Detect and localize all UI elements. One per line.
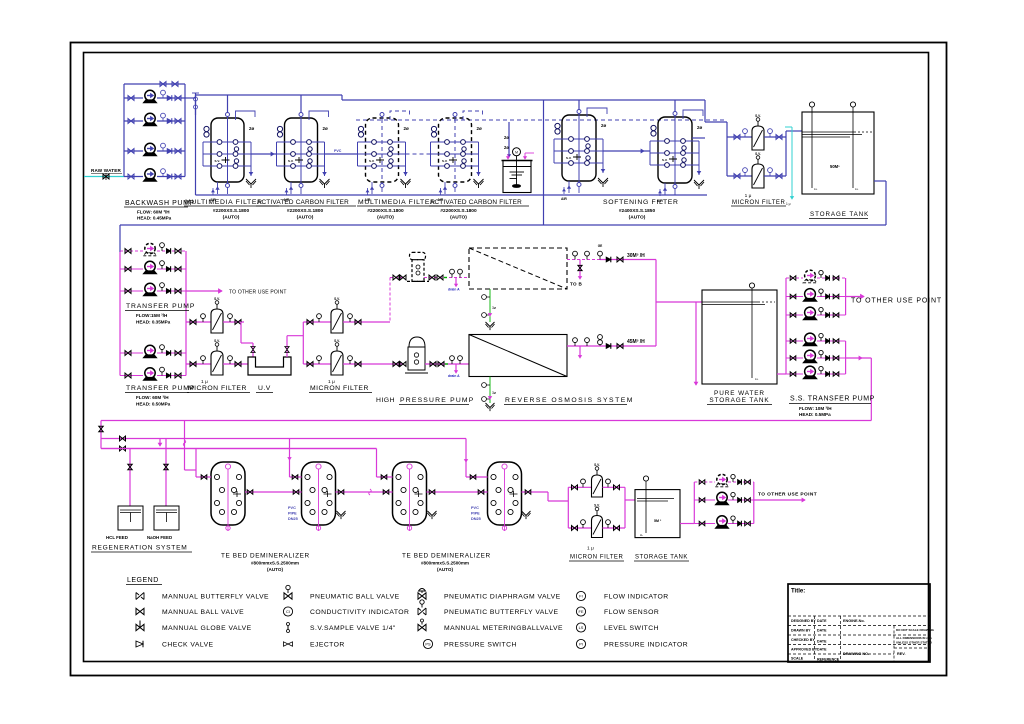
vessel vent line <box>683 110 703 119</box>
vessel vent line <box>309 111 329 120</box>
bottom micron feed riser <box>567 487 569 528</box>
demineralizer top nozzle <box>502 464 507 469</box>
vessel left riser <box>276 142 278 166</box>
ss transfer pump SP5 <box>803 350 817 363</box>
backwash pump P2 suction valve <box>128 119 134 124</box>
micron filter feed riser <box>726 122 728 176</box>
bottom micron filter M6 <box>592 516 603 538</box>
vessel left riser <box>649 141 651 165</box>
micron filter F6 <box>752 164 764 188</box>
vessel center pipe <box>674 111 676 189</box>
bottom micron M5 feed <box>568 486 591 488</box>
softening outlet pipe <box>692 137 705 139</box>
svg-text:(AUTO): (AUTO) <box>437 567 453 572</box>
micron filter M4 outlet <box>343 363 404 365</box>
transfer pump TP1 discharge <box>157 250 186 252</box>
vessel internal header 2 <box>431 153 479 155</box>
TE bed demineralizer D4 <box>488 462 522 531</box>
bottom pump BP2 suction <box>694 499 715 501</box>
svg-text:DN25: DN25 <box>471 517 481 521</box>
svg-text:CHECKED BY: CHECKED BY <box>791 638 815 642</box>
ss transfer pump SP2 suction <box>786 296 803 298</box>
RO1 reject line <box>489 289 491 322</box>
inner border frame <box>84 53 929 662</box>
bottom header H1 <box>101 420 871 422</box>
svg-text:S.V.: S.V. <box>214 339 220 343</box>
backwash pump P3 suction valve <box>128 149 134 154</box>
brine tank level line <box>503 166 531 168</box>
svg-text:drain A: drain A <box>448 288 460 292</box>
vessel vent line <box>236 111 256 120</box>
vessel internal header 3 <box>277 165 325 167</box>
vessel inlet gauges <box>204 126 209 131</box>
vessel internal header 1 <box>554 138 603 140</box>
vessel drain <box>371 182 373 194</box>
brine tank agitator motor <box>513 148 521 156</box>
demineralizer center pipe <box>504 469 506 525</box>
transfer pump suction manifold <box>119 252 121 376</box>
backwash pump P3 suction line <box>124 150 143 152</box>
demineralizer shell <box>211 462 245 525</box>
svg-text:S.V.: S.V. <box>594 463 600 467</box>
bottom pump BP3 suction <box>694 523 715 525</box>
vessel drain funnel <box>401 179 411 188</box>
svg-text:FLOW SENSOR: FLOW SENSOR <box>604 609 659 616</box>
vessel vent line <box>587 108 607 117</box>
naoh feed drop <box>165 439 167 507</box>
demin D2 feed drop <box>289 439 291 478</box>
vessel bottom nozzle <box>673 185 677 189</box>
filter vessel V2 <box>277 111 330 202</box>
brine tank agitator shaft <box>516 156 518 186</box>
ss pumps group1 discharge header <box>845 278 847 315</box>
bypass valve <box>160 82 166 87</box>
svg-text:#2200XS.S.1800: #2200XS.S.1800 <box>367 208 404 214</box>
vessel bottom pipe <box>381 188 383 194</box>
vessel sv mark <box>573 154 581 160</box>
bottom tank feed <box>625 499 635 501</box>
vessel internal header 3 <box>203 165 251 167</box>
svg-text:PIPE: PIPE <box>288 512 297 516</box>
bottom header H2 <box>101 438 466 440</box>
micron filter M1 <box>211 309 223 333</box>
bottom left down leg <box>100 421 102 449</box>
bottom tank level lines <box>637 498 674 500</box>
vessel right riser <box>405 142 407 176</box>
svg-text:HIGH: HIGH <box>376 397 395 404</box>
raw water inlet line <box>84 176 124 178</box>
demineralizer internals <box>396 474 401 479</box>
svg-text:(AUTO): (AUTO) <box>450 215 467 221</box>
vessel drain <box>217 182 219 194</box>
vessel V1 feed drop <box>227 95 229 112</box>
svg-text:ACTIVATED CARBON FILTER: ACTIVATED CARBON FILTER <box>430 199 522 206</box>
demineralizer top nozzle <box>225 464 230 469</box>
svg-text:NaOH FEED: NaOH FEED <box>147 535 172 540</box>
micron filter M2 feed <box>186 363 211 365</box>
svg-text:#800mmxS.S.2500mm: #800mmxS.S.2500mm <box>421 561 469 566</box>
ss pump suction from tank <box>777 373 786 375</box>
demineralizer center pipe <box>227 469 229 525</box>
bottom micron filter M5 <box>592 475 603 497</box>
backwash pump P4 suction line <box>124 176 143 178</box>
backwash pump P1 discharge gauge <box>162 95 164 98</box>
vessel sv mark <box>295 157 303 163</box>
svg-text:LEVEL SWITCH: LEVEL SWITCH <box>604 625 659 632</box>
svg-text:30M³ /H: 30M³ /H <box>627 253 645 259</box>
vessel inlet gauges <box>555 123 560 128</box>
title block frame <box>788 584 930 662</box>
svg-text:2ø: 2ø <box>477 126 483 131</box>
ss transfer pump SP4 discharge <box>817 340 846 342</box>
pure water tank level lines <box>702 301 760 303</box>
hp1 discharge dashed <box>424 277 469 279</box>
svg-text:DRAWING NO.: DRAWING NO. <box>843 652 869 656</box>
RO module future (dashed) <box>469 248 567 289</box>
vessel sv mark <box>669 156 677 162</box>
bottom micron M6 feed <box>568 527 591 529</box>
svg-text:MULTIMEDIA FILTER: MULTIMEDIA FILTER <box>358 199 436 206</box>
svg-text:5M ³: 5M ³ <box>654 519 662 523</box>
svg-text:MANNUAL GLOBE VALVE: MANNUAL GLOBE VALVE <box>162 625 252 632</box>
demineralizer top nozzle <box>407 464 412 469</box>
legend conductivity indicator <box>283 607 292 616</box>
vessel inlet gauges <box>651 125 656 130</box>
vessel center pipe <box>381 112 383 188</box>
outer border frame <box>71 43 947 676</box>
micron filter F6 feed stub <box>727 175 752 177</box>
demineralizer bottom nozzle <box>502 526 506 530</box>
hp pump dashed riser <box>389 278 391 323</box>
svg-text:1 μ: 1 μ <box>328 379 335 385</box>
svg-text:2ø: 2ø <box>504 145 509 150</box>
legend sv sample valve <box>287 623 289 633</box>
vessel shell <box>211 118 244 182</box>
backwash pump P4 suction valve <box>128 174 134 179</box>
RO module <box>469 335 567 377</box>
legend flow sensor <box>576 607 585 616</box>
svg-text:(AUTO): (AUTO) <box>377 215 394 221</box>
bottom pump BP3 discharge <box>728 523 754 525</box>
vessel bottom nozzle <box>380 184 384 188</box>
micron filter M2 <box>211 351 223 375</box>
svg-text:DATE: DATE <box>817 619 827 623</box>
svg-text:TO B: TO B <box>570 282 582 287</box>
title block dashed grid <box>788 615 930 617</box>
interconnecting pipe V1-V2 <box>251 153 277 155</box>
bottom pump BP1 <box>715 474 728 487</box>
uv unit <box>248 357 291 375</box>
transfer pump discharge header <box>185 251 187 376</box>
backwash pump P1 suction line <box>124 97 143 99</box>
vessel internal header 1 <box>358 141 406 143</box>
backwash pump P2 discharge gauge <box>162 118 164 121</box>
backwash pump P1 discharge valve <box>175 96 181 101</box>
vessel bottom pipe <box>674 189 676 195</box>
svg-text:MICRON FILTER: MICRON FILTER <box>188 385 247 392</box>
demin D4 outlet <box>522 491 549 493</box>
vessel left riser <box>430 142 432 166</box>
ss transfer pump SP3 <box>803 307 817 320</box>
naoh feed tank <box>154 506 179 530</box>
ss transfer pump SP2 discharge <box>817 296 846 298</box>
backwash pump P2 suction line <box>124 120 143 122</box>
ss transfer pump SP4 suction <box>786 340 803 342</box>
brine tank feed drop <box>508 122 510 157</box>
svg-text:TE BED DEMINERALIZER: TE BED DEMINERALIZER <box>402 553 491 560</box>
uv outlet stub <box>286 336 288 357</box>
svg-text:PVC: PVC <box>471 506 479 510</box>
bottom storage tank shell <box>635 490 680 538</box>
bottom micron M6 outlet <box>603 527 626 529</box>
storage tank level lines <box>802 131 856 133</box>
svg-text:2ø: 2ø <box>323 126 329 131</box>
vessel internal header 2 <box>650 152 699 154</box>
vessel bottom nozzle <box>577 183 581 187</box>
micron F5 feed valve <box>734 135 740 140</box>
storage tank level standpipe 1 <box>811 107 813 188</box>
svg-text:MULTIMEDIA FILTER: MULTIMEDIA FILTER <box>185 199 263 206</box>
backwash pump suction manifold <box>123 84 125 177</box>
legend pneumatic ball valve <box>284 593 292 599</box>
softening vessel S2 feed drop <box>674 100 676 111</box>
demineralizer internals <box>305 474 310 479</box>
uv feed drop <box>240 322 242 343</box>
vessel bottom nozzle <box>453 184 457 188</box>
transfer pump TP1 suction <box>120 250 143 252</box>
vessel drain <box>568 181 570 193</box>
brine tank shell <box>503 161 531 193</box>
svg-text:S.V.: S.V. <box>288 159 294 163</box>
air scour arrows <box>440 188 442 195</box>
bottom pumps discharge header <box>753 482 755 524</box>
svg-text:(AUTO): (AUTO) <box>267 567 283 572</box>
svg-text:TO OTHER USE POINT: TO OTHER USE POINT <box>229 290 287 296</box>
svg-text:3ø: 3ø <box>492 391 496 395</box>
ss transfer pump SP1 <box>803 270 817 283</box>
svg-text:ACTIVATED CARBON FILTER: ACTIVATED CARBON FILTER <box>257 199 349 206</box>
svg-text:LL: LL <box>814 187 818 191</box>
high pressure pump HP2 <box>405 337 428 373</box>
TO B branch <box>579 260 581 277</box>
demineralizer feed down leg <box>870 358 872 421</box>
vessel center pipe <box>454 112 456 188</box>
svg-text:PVC: PVC <box>288 506 296 510</box>
to other use point line right <box>846 296 864 298</box>
air scour arrows <box>212 188 214 195</box>
backwash pump P2 discharge valve <box>175 119 181 124</box>
transfer pump TP4 <box>143 345 156 358</box>
backwash bypass line <box>124 83 185 85</box>
demin D4 feed leg <box>465 439 467 478</box>
svg-text:PRESSURE SWITCH: PRESSURE SWITCH <box>444 642 517 649</box>
top header step <box>341 95 343 100</box>
top header right run <box>342 99 705 101</box>
raw water butterfly valve <box>103 174 109 179</box>
vessel right riser <box>324 142 326 176</box>
backwash pump P1 suction valve <box>128 96 134 101</box>
svg-text:HEAD: 0.45MPa: HEAD: 0.45MPa <box>137 216 172 221</box>
micron filter M1 outlet <box>223 321 244 323</box>
backwash pump P3 check valve <box>167 149 172 154</box>
svg-text:PI: PI <box>579 641 583 646</box>
vessel bottom pipe <box>578 187 580 193</box>
vessel drain funnel <box>598 178 608 187</box>
transfer pump TP3 suction <box>120 290 143 292</box>
vessel left riser <box>357 142 359 166</box>
backwash pump P3 <box>143 143 156 156</box>
svg-text:1 μ: 1 μ <box>786 202 791 206</box>
interconnecting pipe S1-S2 <box>603 150 650 152</box>
legend level switch <box>576 623 585 632</box>
svg-text:ALL DIMENSIONS IN mm: ALL DIMENSIONS IN mm <box>896 636 932 640</box>
micron filter M3 outlet <box>343 321 390 323</box>
vessel internal header 1 <box>203 141 251 143</box>
svg-text:2ø: 2ø <box>249 126 255 131</box>
backwash pump P3 discharge gauge <box>162 148 164 151</box>
svg-text:SOFTENING FILTER: SOFTENING FILTER <box>603 199 679 206</box>
svg-text:CI: CI <box>286 609 290 614</box>
svg-text:LS: LS <box>579 625 584 630</box>
backwash pump P4 discharge valve <box>175 174 181 179</box>
vessel bottom pipe <box>454 188 456 194</box>
uv outlet ejector <box>285 347 289 353</box>
header drop to micron filters <box>704 100 706 122</box>
demin drain funnels <box>337 511 346 519</box>
vessel top nozzle <box>673 112 677 116</box>
svg-text:DN25: DN25 <box>288 517 298 521</box>
demin D2-D3 link <box>336 491 393 493</box>
svg-text:MANNUAL BALL VALVE: MANNUAL BALL VALVE <box>162 609 244 616</box>
air scour arrows <box>659 189 661 196</box>
svg-text:LEGEND: LEGEND <box>127 577 159 584</box>
vessel vent line <box>390 111 410 120</box>
bottom micron outlet riser <box>624 487 626 528</box>
header down leg at softening <box>543 100 545 225</box>
transfer suction long header <box>120 224 886 226</box>
vessel shell <box>366 118 399 182</box>
svg-text:PVC: PVC <box>334 149 342 153</box>
demin D1-D2 link <box>245 491 302 493</box>
legend manual ball valve <box>136 608 144 614</box>
svg-text:HCL FEED: HCL FEED <box>106 535 128 540</box>
svg-text:TRANSFER PUMP: TRANSFER PUMP <box>126 385 195 392</box>
legend flow indicator <box>576 591 585 600</box>
RO1 permeate line (dashed) <box>567 259 600 261</box>
svg-text:#2400XS.S.1850: #2400XS.S.1850 <box>619 208 656 214</box>
svg-text:50M³: 50M³ <box>830 164 840 169</box>
svg-text:PNEUMATIC DIAPHRAGM VALVE: PNEUMATIC DIAPHRAGM VALVE <box>444 594 561 601</box>
bottom pump BP1 suction <box>694 481 715 483</box>
svg-text:AIR: AIR <box>561 197 567 201</box>
legend pneumatic butterfly valve <box>417 608 419 615</box>
TE bed demineralizer D3 <box>393 462 427 531</box>
bottom pump BP1 discharge <box>728 481 754 483</box>
svg-text:drain A: drain A <box>448 374 460 378</box>
ss transfer pump SP1 suction <box>786 277 803 279</box>
vessel drain <box>290 182 292 194</box>
svg-text:S.V.: S.V. <box>334 339 340 343</box>
backwash pump P2 <box>143 113 156 126</box>
demineralizer top nozzle <box>316 464 321 469</box>
micron col2 riser <box>302 322 304 364</box>
vessel left riser <box>553 139 555 163</box>
vessel top nozzle <box>453 113 457 117</box>
svg-text:45M³ /H: 45M³ /H <box>627 339 645 345</box>
micron F6 outlet <box>764 175 786 177</box>
svg-text:(AUTO): (AUTO) <box>297 215 314 221</box>
micron F5 feed gauge <box>744 134 746 138</box>
svg-text:STORAGE TANK: STORAGE TANK <box>709 397 769 404</box>
svg-text:PS: PS <box>425 641 431 646</box>
filter vessel V4 <box>431 111 484 202</box>
vessel internal header 2 <box>358 153 406 155</box>
vessel right riser <box>698 141 700 175</box>
svg-text:LL: LL <box>640 533 644 537</box>
ss transfer pump SP1 discharge <box>817 277 846 279</box>
legend check valve <box>136 641 143 647</box>
vessel drain funnel <box>246 179 256 188</box>
vessel drain <box>444 182 446 194</box>
svg-text:(AUTO): (AUTO) <box>629 215 646 221</box>
bottom pump BP3 <box>715 516 728 529</box>
svg-text:CHECK VALVE: CHECK VALVE <box>162 642 214 649</box>
bottom pump BP2 discharge <box>728 499 754 501</box>
svg-text:PNEUMATIC BUTTERFLY VALVE: PNEUMATIC BUTTERFLY VALVE <box>444 609 558 616</box>
svg-text:TE BED DEMINERALIZER: TE BED DEMINERALIZER <box>221 553 310 560</box>
vessel top nozzle <box>577 110 581 114</box>
transfer pump TP5 <box>143 368 156 381</box>
to other use point branch <box>186 290 222 292</box>
vessel internal header 3 <box>554 162 603 164</box>
demineralizer bottom nozzle <box>407 526 411 530</box>
vessel left riser <box>202 142 204 166</box>
RO2 permeate line <box>567 345 656 347</box>
svg-text:STORAGE TANK: STORAGE TANK <box>635 555 688 561</box>
sample branch bottom <box>579 346 581 356</box>
vessel internal header 3 <box>431 165 479 167</box>
svg-text:#2200XS.S.1800: #2200XS.S.1800 <box>440 208 477 214</box>
legend ejector <box>284 642 293 646</box>
legend pressure switch <box>423 639 432 648</box>
vessel V4 feed drop <box>454 112 456 120</box>
bypass valve 2 <box>172 82 178 87</box>
vessel inlet gauges <box>358 126 363 131</box>
vessel shell <box>562 115 596 181</box>
tank feed run <box>656 301 702 303</box>
bottom to other use point <box>754 499 805 501</box>
svg-text:(AUTO): (AUTO) <box>223 215 240 221</box>
vessel drain funnel <box>474 179 484 188</box>
backwash pump P4 discharge line <box>157 176 185 178</box>
demineralizer center pipe <box>409 469 411 525</box>
vessel internal header 3 <box>650 164 699 166</box>
svg-text:HEAD: 0.5MPa: HEAD: 0.5MPa <box>799 412 831 417</box>
bottom tank standpipe <box>645 481 647 533</box>
svg-text:PRESSURE PUMP: PRESSURE PUMP <box>400 397 475 404</box>
ss transfer pump SP4 <box>803 333 817 346</box>
micron outlet riser <box>785 131 787 176</box>
vessel top nozzle <box>299 113 303 117</box>
vessel inlet gauges <box>431 126 436 131</box>
transfer pump TP5 discharge <box>157 375 186 377</box>
vessel V3 feed drop <box>381 112 383 120</box>
legend pressure indicator <box>576 639 585 648</box>
legend manual globe valve <box>136 624 144 630</box>
filter section bottom header <box>196 194 708 196</box>
ss transfer pump SP6 suction <box>786 373 803 375</box>
vessel drain <box>664 183 666 195</box>
